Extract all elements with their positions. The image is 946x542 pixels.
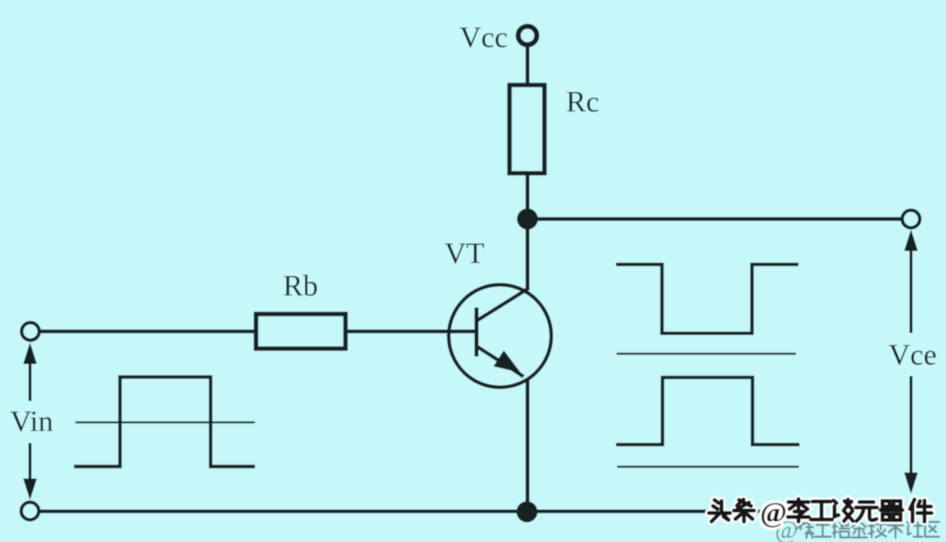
svg-text:Vin: Vin [10,405,53,438]
svg-text:@: @ [760,497,787,529]
svg-text:Vce: Vce [889,339,937,372]
svg-text:Rb: Rb [283,270,318,303]
svg-text:Rc: Rc [566,86,599,119]
svg-text:VT: VT [445,237,485,270]
svg-text:Vcc: Vcc [460,21,508,54]
